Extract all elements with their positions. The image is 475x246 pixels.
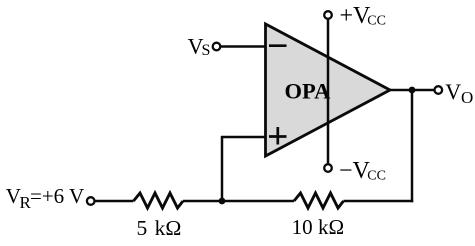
svg-text:V: V	[445, 79, 461, 104]
svg-text:O: O	[461, 88, 473, 107]
pin + (non-inverting input)	[269, 135, 287, 138]
terminal +Vcc	[324, 11, 332, 19]
wire (resistor R1 to node A)	[183, 200, 294, 203]
svg-text:−V: −V	[339, 158, 371, 184]
terminal Vs	[213, 43, 221, 51]
resistor R1 5k	[134, 193, 184, 208]
terminal VR	[87, 197, 95, 205]
wire (Vs to inverting input)	[221, 45, 266, 48]
wire (op-amp output to Vo terminal)	[390, 89, 434, 92]
svg-text:CC: CC	[367, 169, 386, 184]
terminal Vo	[435, 86, 443, 94]
pin - (inverting input)	[269, 44, 287, 47]
svg-text:=+6 V: =+6 V	[30, 184, 84, 208]
svg-text:kΩ: kΩ	[155, 216, 182, 240]
svg-text:OPA: OPA	[285, 78, 332, 103]
wire (VR terminal to resistor R1)	[95, 200, 134, 203]
resistor R2 10k	[294, 193, 344, 208]
terminal -Vcc	[324, 164, 332, 172]
node output junction	[409, 87, 416, 94]
wire (supply rail through op-amp, +Vcc to -Vcc)	[327, 19, 330, 164]
wire (output down to feedback rail)	[411, 90, 414, 202]
wire (resistor R2 to output rail)	[344, 200, 414, 203]
svg-text:5: 5	[137, 216, 148, 240]
node A	[219, 198, 226, 205]
svg-text:kΩ: kΩ	[318, 215, 344, 239]
svg-text:S: S	[202, 42, 211, 59]
svg-text:CC: CC	[367, 13, 386, 28]
svg-text:10: 10	[292, 215, 313, 239]
svg-text:+V: +V	[340, 3, 372, 29]
wire (vertical from non-inverting input down to node A)	[221, 136, 224, 201]
wire (node A to non-inverting input)	[221, 136, 266, 139]
op-amp U1	[266, 24, 391, 156]
